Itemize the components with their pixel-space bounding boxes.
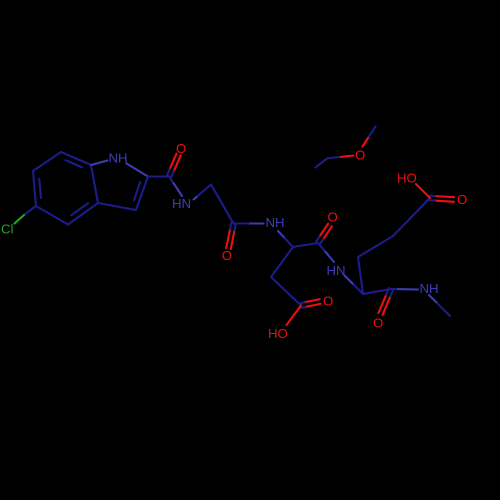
bond O4-CH2 (methoxy ether bond, left) bbox=[339, 156, 354, 158]
svg-text:O: O bbox=[328, 209, 338, 224]
bond C12-N (amide 4 C-N) bbox=[396, 288, 418, 290]
indole benzene double C7=C7a inner line bbox=[66, 160, 83, 167]
bond C10-N (amide 3 C-N) bbox=[324, 251, 334, 262]
svg-text:HN: HN bbox=[327, 263, 346, 278]
indole benzene double C5=C6 inner line bbox=[39, 179, 41, 198]
bond C13-OH (acid 1 C-OH, red) bbox=[416, 184, 430, 198]
indole benzene bond C7-C7a bbox=[61, 152, 91, 165]
bond N-CH2 (amide 1 N to glycine CH2) bbox=[194, 196, 198, 200]
bond C8-N (amide 1 C-N) bbox=[169, 177, 174, 184]
indole benzene bond C6-C7 bbox=[33, 152, 61, 171]
double bond C13=O5 (acid 1 C=O) bbox=[435, 196, 454, 197]
bond N1-C7a (blue, from indole NH) bbox=[91, 161, 108, 166]
svg-text:Cl: Cl bbox=[1, 222, 14, 237]
svg-text:O: O bbox=[323, 293, 333, 308]
svg-text:HO: HO bbox=[397, 170, 417, 185]
bond N-CH3 (N-methyl cap) bbox=[429, 295, 437, 303]
svg-text:O: O bbox=[457, 192, 467, 207]
bond N1-C2 (blue, from indole NH) bbox=[127, 164, 149, 177]
double bond C9=O2 (amide 2 C=O) bbox=[231, 230, 235, 249]
indole benzene double C3a=C4 inner line bbox=[71, 203, 88, 215]
indole pyrrole bond C3a-C3 bbox=[98, 203, 136, 210]
indole benzene bond C5-C6 bbox=[33, 171, 36, 206]
bond C5-Cl (half green) bbox=[24, 206, 36, 215]
svg-text:HO: HO bbox=[268, 326, 288, 341]
svg-text:O: O bbox=[176, 141, 186, 156]
bond O4-CH3 (methoxy methyl) bbox=[363, 137, 370, 147]
indole benzene bond C7a-C3a bbox=[91, 165, 98, 203]
bond Calpha-CH2 (aspartate side chain) bbox=[271, 247, 293, 277]
svg-text:O: O bbox=[222, 248, 232, 263]
svg-text:NH: NH bbox=[420, 281, 439, 296]
bond CH2-C11 (side chain to acid 2) bbox=[271, 277, 301, 306]
bond N-Calpha (amide 2 N to alpha C) bbox=[278, 231, 285, 238]
svg-text:O: O bbox=[355, 148, 365, 163]
svg-text:NH: NH bbox=[266, 215, 285, 230]
bond Calpha-C10 bbox=[293, 243, 318, 247]
svg-text:NH: NH bbox=[109, 151, 128, 166]
svg-text:O: O bbox=[373, 316, 383, 331]
chain stub from methoxy CH2 bbox=[316, 159, 328, 168]
bond CH2-C9 (glycine CH2 to carbonyl) bbox=[211, 185, 234, 224]
double bond C10=O3 (amide 3 C=O) bbox=[319, 224, 328, 237]
double bond C12=O7 (amide 4 C=O) bbox=[383, 296, 391, 315]
bond CH2c-C13 (side chain to acid 1) bbox=[393, 198, 430, 236]
svg-text:HN: HN bbox=[172, 196, 191, 211]
indole benzene bond C4-C5 bbox=[36, 206, 68, 225]
bond N-Calpha (amide 3 N to alpha C) bbox=[345, 276, 354, 285]
double bond C11=O6 (acid 2 C=O) bbox=[304, 299, 319, 302]
bond CH2b-CH2c (glutamate side chain) bbox=[358, 236, 393, 257]
indole pyrrole double C2=C3 inner line bbox=[134, 182, 140, 200]
bond C9-N (amide 2 C-N) bbox=[249, 222, 264, 224]
indole benzene bond C3a-C4 bbox=[68, 203, 98, 225]
bond C2-C8 (ring to carbonyl C) bbox=[148, 175, 169, 177]
indole pyrrole bond C3-C2 bbox=[136, 177, 148, 211]
bond C11-OH (acid 2 C-OH, red) bbox=[287, 306, 302, 326]
bond Calpha-C12 bbox=[363, 289, 391, 294]
bond Calpha-CH2b (glutamate side chain) bbox=[358, 257, 363, 294]
double bond C8=O1 (amide 1 C=O) bbox=[170, 154, 177, 170]
